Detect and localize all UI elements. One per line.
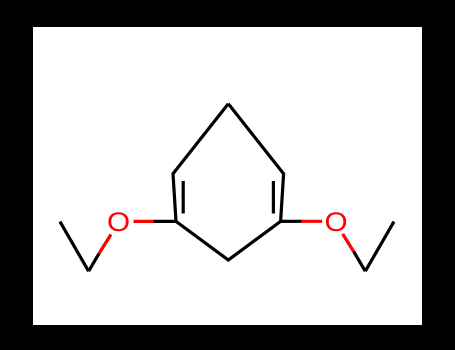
bond O_R to CH2 : red half <box>343 234 354 252</box>
bond CH2-CH3 right <box>365 222 394 272</box>
bond O_R to ring R : red half <box>301 220 322 223</box>
bond O_R to ring R : black half <box>281 220 302 223</box>
ring bonds T-UL-L (apex to upper-left to left vertex) <box>173 104 228 222</box>
bond O_R to CH2 : black half <box>354 252 366 272</box>
bond O_L to CH2 : black half <box>89 254 99 272</box>
bond O_L to ring L : red half <box>134 220 154 223</box>
ring bonds T-UR-R (apex to upper-right to right vertex) <box>228 104 283 222</box>
ring bonds L-B-R (bottom V) <box>176 221 281 260</box>
bond CH2-CH3 left <box>60 222 89 272</box>
white drawing area <box>33 27 422 325</box>
svg-text:O: O <box>324 207 347 237</box>
double bond inner line left <box>182 181 185 214</box>
svg-text:O: O <box>107 207 130 237</box>
double bond inner line right <box>272 181 275 214</box>
bond O_L to CH2 : red half <box>99 234 111 253</box>
bond O_L to ring L : black half <box>153 220 176 223</box>
